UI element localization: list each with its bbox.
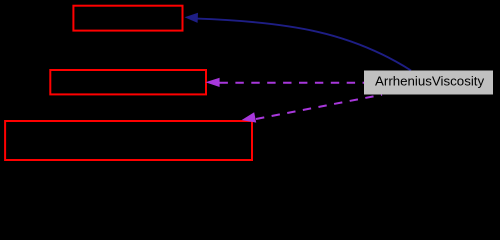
svg-text:ArrheniusViscosity: ArrheniusViscosity — [375, 74, 484, 89]
